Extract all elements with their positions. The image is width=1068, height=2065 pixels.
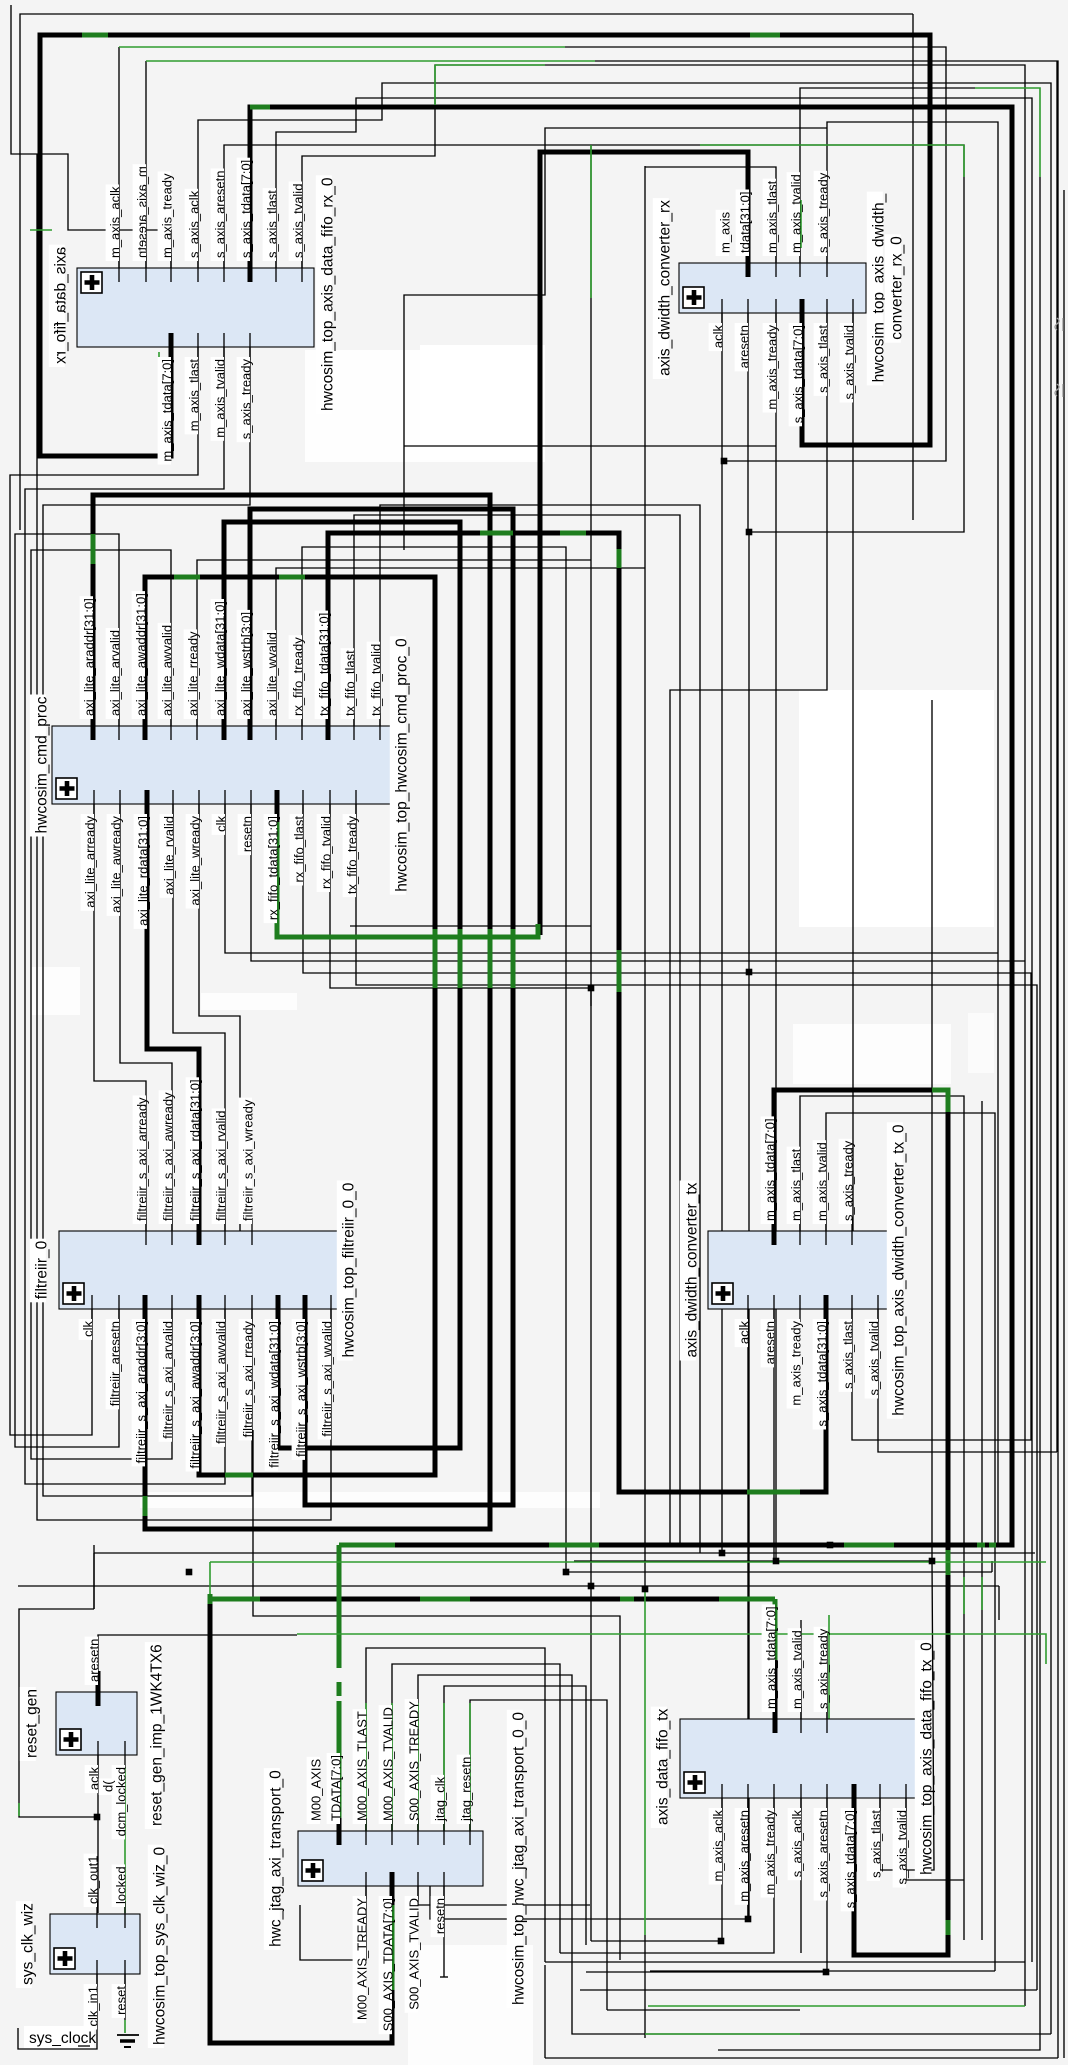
wire highlighted green segment 28 [981, 1577, 983, 1610]
pin hwcosim_cmd_proc.rx_fifo_tlast [290, 790, 307, 886]
svg-text:axi_lite_rvalid: axi_lite_rvalid [162, 816, 177, 895]
svg-text:tx_fifo_tlast: tx_fifo_tlast [343, 650, 358, 716]
wire (thin net segment 41) [721, 313, 723, 1553]
pin axis_data_fifo_rx.s_axis_aclk [185, 189, 202, 282]
wire (thin net segment 32) [225, 804, 998, 953]
svg-text:s_axis_tvalid: s_axis_tvalid [842, 325, 857, 399]
svg-text:TDATA[7:0]: TDATA[7:0] [329, 1755, 344, 1821]
svg-text:M00_AXIS: M00_AXIS [309, 1759, 324, 1821]
pin hwcosim_cmd_proc.axi_lite_rready [184, 629, 201, 740]
svg-text:clk: clk [214, 816, 229, 832]
wire (thin net segment 49) [826, 1113, 995, 1971]
pin hwcosim_cmd_proc.tx_fifo_tdata[31:0] [315, 611, 332, 740]
pin axis_data_fifo_rx.m_axis_tlast [185, 333, 202, 434]
wire (thin net segment 28) [644, 166, 646, 1589]
pin filtreiir_0.filtreiir_s_axi_wstrb[3:0] [292, 1295, 309, 1460]
bus tx_fifo_tdata[31:0] hwcosim_cmd_proc to axis_dwidth_converter_tx s_axis_tdata [328, 533, 826, 1492]
svg-text:axis_dwidth_converter_rx: axis_dwidth_converter_rx [657, 200, 674, 376]
pin hwcosim_cmd_proc.axi_lite_arready [81, 790, 98, 911]
pin axis_data_fifo_rx.m_axis_tvalid [211, 333, 228, 441]
pin hwc_jtag_axi_transport_0.S00_AXIS_TVALID [405, 1872, 422, 2013]
module reset_gen body [56, 1692, 137, 1755]
cell type label hwcosim_top_filtreiir_0_0 [337, 1181, 358, 1361]
wire highlighted green segment 22 [417, 1703, 419, 1831]
wire (thin net segment 11) [302, 65, 1025, 2006]
pin axis_dwidth_converter_rx.m_axis_tlast [763, 179, 780, 277]
pin hwcosim_cmd_proc.rx_fifo_tdata[31:0] [264, 790, 281, 923]
pin sys_clk_wiz.locked [112, 1864, 129, 1928]
wire highlighted green segment 16 [828, 1615, 830, 1719]
wire (thin net segment 74) [19, 1609, 97, 1817]
cell type label hwcosim_top_axis_dwidth_ converter_rx_0 [867, 192, 906, 386]
wire (thin net segment 63) [366, 1648, 545, 1962]
instance name label hwc_jtag_axi_transport_0 [264, 1768, 285, 1950]
pin hwc_jtag_axi_transport_0.jtag_clk [431, 1775, 448, 1845]
svg-text:s_axis_tready: s_axis_tready [816, 172, 831, 253]
svg-text:axi_lite_wdata[31:0]: axi_lite_wdata[31:0] [213, 601, 228, 716]
bus highlighted green segment 5 [277, 822, 538, 937]
wire (thin net segment 59) [566, 1571, 992, 1573]
svg-text:m_axis_aresetn: m_axis_aresetn [135, 166, 150, 258]
svg-text:hwcosim_top_filtreiir_0_0: hwcosim_top_filtreiir_0_0 [340, 1182, 357, 1357]
bus highlighted green segment 16 [480, 531, 513, 536]
svg-text:s_axis_tdata[7:0]: s_axis_tdata[7:0] [239, 160, 254, 258]
wire highlighted green segment 23 [443, 1703, 445, 1831]
bus highlighted green segment 36 [620, 1597, 634, 1602]
svg-text:m_axis_tready: m_axis_tready [160, 173, 175, 258]
wire (thin net segment 71) [440, 1976, 448, 1978]
bus highlighted green segment 18 [747, 1490, 800, 1495]
pin axis_data_fifo_tx.m_axis_aresetn [735, 1784, 752, 1905]
pin hwcosim_cmd_proc.axi_lite_rvalid [160, 790, 177, 898]
pin axis_dwidth_converter_tx.aclk [735, 1295, 752, 1347]
bus highlighted green segment 9 [143, 1496, 148, 1516]
pin hwcosim_cmd_proc.axi_lite_awaddr[31:0] [132, 591, 149, 740]
wire (thin net segment 78) [591, 1798, 722, 1941]
wire highlighted green segment 7 [700, 144, 964, 146]
bus highlighted green segment 19 [932, 1090, 948, 1112]
wire highlighted green segment 24 [469, 1703, 471, 1831]
svg-text:M00_AXIS_TREADY: M00_AXIS_TREADY [355, 1898, 370, 2020]
pin hwcosim_cmd_proc.axi_lite_awready [107, 790, 124, 916]
pin hwcosim_cmd_proc.tx_fifo_tready [343, 790, 360, 897]
wire (thin net segment 52) [773, 1309, 775, 1561]
pin axis_dwidth_converter_tx.m_axis_tdata[7:0] [761, 1116, 778, 1245]
wire (thin net segment 57) [94, 1552, 1035, 1554]
wire (thin net segment 50) [981, 1101, 983, 1940]
bus m_axis_tdata[7:0] axis_data_fifo_rx to axis_dwidth_converter_rx s_axis_tdata [40, 35, 930, 456]
cell type label hwcosim_top_axis_data_fifo_rx_0 [316, 175, 337, 414]
pin hwcosim_cmd_proc.tx_fifo_tlast [341, 648, 358, 740]
svg-text:sys_clock: sys_clock [29, 2030, 96, 2047]
svg-text:hwcosim_top_hwcosim_cmd_proc_0: hwcosim_top_hwcosim_cmd_proc_0 [393, 638, 410, 892]
pin axis_dwidth_converter_tx.s_axis_tlast [839, 1295, 856, 1392]
pin axis_data_fifo_rx.s_axis_tvalid [289, 182, 306, 283]
instance name label axis_dwidth_converter_rx [653, 198, 674, 379]
pin axis_dwidth_converter_tx.m_axis_tlast [787, 1147, 804, 1245]
svg-text:axi_lite_awaddr[31:0]: axi_lite_awaddr[31:0] [134, 593, 149, 716]
wire (thin net segment 95) [1063, 190, 1065, 2058]
wire (thin net segment 24) [197, 560, 591, 726]
instance name label axis_dwidth_converter_tx [680, 1181, 701, 1361]
cell type label hwcosim_top_hwcosim_cmd_proc_0 [390, 636, 411, 894]
wire (thin net segment 29) [302, 547, 566, 1572]
svg-text:m_axis: m_axis [718, 211, 733, 253]
svg-text:filtreiir_s_axi_awready: filtreiir_s_axi_awready [161, 1092, 176, 1221]
wire highlighted green segment 20 [365, 1703, 367, 1831]
svg-text:hwc_jtag_axi_transport_0: hwc_jtag_axi_transport_0 [267, 1770, 284, 1947]
pin axis_data_fifo_tx.s_axis_aclk [788, 1784, 805, 1880]
pin filtreiir_0.filtreiir_aresetn [106, 1295, 123, 1409]
wire (thin net segment 1) [20, 14, 913, 530]
wire (thin net segment 65) [418, 1675, 1051, 2034]
svg-text:hwcosim_top_axis_data_fifo_rx_: hwcosim_top_axis_data_fifo_rx_0 [319, 177, 336, 411]
wire (thin net segment 92) [545, 2057, 1058, 2059]
svg-text:m_axis_tready: m_axis_tready [789, 1321, 804, 1406]
pin filtreiir_0.filtreiir_s_axi_rdata[31:0] [186, 1077, 203, 1245]
pin hwcosim_cmd_proc.axi_lite_wdata[31:0] [211, 599, 228, 740]
svg-text:s_axis_tvalid: s_axis_tvalid [291, 184, 306, 258]
svg-text:filtreiir_s_axi_awaddr[3:0]: filtreiir_s_axi_awaddr[3:0] [188, 1321, 203, 1468]
wire (thin net segment 51) [747, 1309, 749, 1919]
svg-text:m_axis_tlast: m_axis_tlast [765, 180, 780, 253]
svg-text:reset_gen: reset_gen [23, 1689, 40, 1758]
svg-text:filtreiir_s_axi_wready: filtreiir_s_axi_wready [241, 1099, 256, 1221]
module sys_clk_wiz body [50, 1914, 140, 1974]
cell type label hwcosim_top_axis_dwidth_converter_tx_0 [887, 1122, 908, 1418]
bus highlighted green segment 24 [844, 1543, 894, 1548]
pin axis_dwidth_converter_tx.m_axis_tvalid [813, 1140, 830, 1245]
svg-text:axi_lite_wready: axi_lite_wready [188, 815, 203, 905]
wire (thin net segment 69) [418, 1886, 590, 1905]
svg-text:locked: locked [114, 1866, 129, 1904]
wire (thin net segment 72) [98, 1635, 297, 1679]
wire (thin net segment 76) [18, 1974, 97, 2049]
pin axis_dwidth_converter_tx.m_axis_tready [787, 1295, 804, 1409]
wire (thin net segment 83) [880, 1561, 934, 1870]
svg-text:hwcosim_top_axis_data_fifo_tx_: hwcosim_top_axis_data_fifo_tx_0 [918, 1642, 935, 1875]
svg-text:aresetn: aresetn [87, 1639, 102, 1682]
wire (thin net segment 88) [650, 1970, 995, 1972]
wire (thin net segment 17) [670, 313, 827, 1545]
wire highlighted green segment 4 [825, 205, 827, 252]
svg-text:aclk: aclk [737, 1320, 752, 1344]
pin hwc_jtag_axi_transport_0.jtag_resetn [457, 1755, 474, 1845]
junction at 724,461 [721, 458, 728, 465]
pin filtreiir_0.filtreiir_s_axi_wvalid [318, 1295, 335, 1440]
bus highlighted green segment 6 [174, 575, 200, 580]
bus highlighted green segment 3 [250, 105, 270, 110]
pin axis_data_fifo_tx.m_axis_tdata[7:0] [762, 1604, 779, 1733]
pin axis_data_fifo_tx.s_axis_tvalid [893, 1784, 910, 1888]
svg-text:s_axis_tvalid: s_axis_tvalid [867, 1321, 882, 1395]
bus rx_fifo_tdata[31:0] stub at hwcosim_cmd_proc [275, 790, 280, 822]
bus highlighted green segment 27 [337, 1545, 342, 1668]
svg-text:d(: d( [101, 1780, 116, 1792]
junction at 749,972 [746, 969, 753, 976]
bus m_axis_tdata[7:0] axis_dwidth_converter_tx upper corner [774, 1090, 932, 1231]
pin axis_dwidth_converter_rx.m_axis_tready [763, 299, 780, 413]
svg-text:m_axis_tvalid: m_axis_tvalid [815, 1142, 830, 1221]
bus highlighted green segment 1 [82, 33, 108, 38]
svg-text:clk: clk [81, 1321, 96, 1337]
pin hwcosim_cmd_proc.axi_lite_wvalid [263, 630, 280, 740]
svg-text:rx_fifo_tdata[31:0]: rx_fifo_tdata[31:0] [266, 816, 281, 920]
pin axis_data_fifo_rx.m_axis_tdata[7:0] [158, 333, 175, 465]
pin hwcosim_cmd_proc.rx_fifo_tready [289, 635, 306, 740]
bus highlighted green segment 4 [91, 534, 96, 564]
wire highlighted green segment 29 [158, 352, 160, 445]
wire (thin net segment 36) [356, 804, 1037, 1990]
wire (thin net segment 7) [595, 61, 1058, 2058]
pin axis_data_fifo_tx.m_axis_tready [761, 1784, 778, 1898]
wire highlighted green segment 19 [18, 1803, 20, 1816]
wire (thin net segment 87) [545, 1961, 1025, 1963]
wire (thin net segment 61) [18, 1585, 999, 1587]
bus highlighted green segment 20 [946, 1550, 951, 1575]
pin reset_gen.aresetn [85, 1637, 102, 1706]
wire (thin net segment 53) [878, 1309, 1057, 1452]
svg-text:jtag_clk: jtag_clk [433, 1776, 448, 1822]
svg-text:m_axis_tdata[7:0]: m_axis_tdata[7:0] [763, 1118, 778, 1221]
wire highlighted green segment 6 [963, 145, 965, 177]
pin hwcosim_cmd_proc.axi_lite_arvalid [106, 628, 123, 740]
pin hwc_jtag_axi_transport_0.M00_AXIS_TVALID [379, 1705, 396, 1845]
ground [117, 2035, 139, 2047]
bus highlighted green segment 10 [488, 929, 493, 988]
svg-text:tdata[31:0]: tdata[31:0] [738, 192, 753, 253]
svg-text:filtreiir_s_axi_rvalid: filtreiir_s_axi_rvalid [214, 1110, 229, 1221]
wire (thin net segment 5) [565, 47, 946, 461]
pin filtreiir_0.filtreiir_s_axi_rready [239, 1295, 256, 1440]
wire (thin net segment 27) [276, 568, 645, 726]
wire (thin net segment 55) [93, 1553, 95, 1609]
wire (thin net segment 45) [404, 445, 776, 447]
pin axis_dwidth_converter_tx.s_axis_tdata[31:0] [813, 1295, 830, 1430]
svg-text:filtreiir_s_axi_arvalid: filtreiir_s_axi_arvalid [161, 1321, 176, 1439]
bus M00_AXIS_TDATA[7:0] hwc_jtag_axi_transport_0 to axis_data_fifo_rx s_axis_tdata [250, 107, 1012, 1545]
bus aresetn stub at reset_gen [96, 1671, 101, 1702]
wire (thin net segment 64) [392, 1664, 560, 1953]
bus m_axis_tdata[7:0] axis_data_fifo_tx stub [773, 1660, 778, 1719]
wire highlighted green segment 15 [644, 1589, 646, 1935]
wire (thin net segment 38) [120, 804, 172, 1231]
bus highlighted green segment 8 [225, 1473, 253, 1478]
bus axi_lite_rdata[31:0] filtreiir_0 to hwcosim_cmd_proc [147, 804, 199, 1231]
svg-text:axi_lite_rdata[31:0]: axi_lite_rdata[31:0] [136, 816, 151, 926]
wire (thin net segment 70) [443, 1886, 445, 1977]
wire (thin net segment 9) [224, 145, 964, 532]
wire (thin net segment 66) [444, 1686, 586, 1945]
pin axis_data_fifo_tx.m_axis_tvalid [788, 1628, 805, 1733]
wire highlighted green segment 17 [124, 1767, 126, 1913]
wire (thin net segment 43) [748, 532, 750, 1919]
svg-text:s_axis_tlast: s_axis_tlast [869, 1810, 884, 1878]
module axis_dwidth_converter_tx body [708, 1231, 893, 1309]
wire highlighted green segment 18 [124, 2020, 126, 2033]
svg-text:s_axis_aclk: s_axis_aclk [790, 1810, 805, 1878]
bus axi_lite_wstrb[3:0] hwcosim_cmd_proc to filtreiir_0 [250, 509, 513, 1505]
wire (thin net segment 16) [827, 122, 998, 1545]
junction at 721,1941 [718, 1938, 725, 1945]
wire (thin net segment 58) [574, 1560, 932, 1562]
wire (thin net segment 73) [97, 1755, 99, 1913]
svg-text:S00_AXIS_TDATA[7:0]: S00_AXIS_TDATA[7:0] [381, 1898, 396, 2031]
wire (thin net segment 14) [800, 88, 975, 263]
wire (thin net segment 40) [199, 804, 240, 1231]
pin filtreiir_0.filtreiir_s_axi_awaddr[3:0] [186, 1295, 203, 1472]
svg-text:jtag_resetn: jtag_resetn [459, 1757, 474, 1822]
bus highlighted green segment 23 [549, 1543, 599, 1548]
module filtreiir_0 body [59, 1231, 342, 1309]
wire (thin net segment 4) [118, 47, 120, 268]
svg-text:dcm_locked: dcm_locked [114, 1767, 129, 1836]
svg-text:m_axis_aclk: m_axis_aclk [108, 186, 123, 258]
junction at 566,1572 [563, 1569, 570, 1576]
svg-text:tx_fifo_tready: tx_fifo_tready [345, 816, 360, 895]
svg-text:m_axis_tready: m_axis_tready [765, 325, 780, 410]
artifact mark right edge 1 [1055, 318, 1063, 331]
svg-text:converter_rx_0: converter_rx_0 [888, 236, 905, 340]
wire highlighted green segment 27 [963, 1577, 965, 1614]
svg-text:hwcosim_cmd_proc: hwcosim_cmd_proc [33, 696, 50, 833]
wire (thin net segment 89) [580, 1989, 1037, 1991]
pin axis_data_fifo_tx.s_axis_aresetn [814, 1784, 831, 1901]
pin axis_dwidth_converter_rx.s_axis_tlast [814, 299, 831, 396]
pin axis_data_fifo_tx.s_axis_tlast [867, 1784, 884, 1881]
pin hwc_jtag_axi_transport_0.S00_AXIS_TREADY [405, 1699, 422, 1845]
wire (thin net segment 62) [998, 1586, 1000, 1620]
svg-text:S00_AXIS_TVALID: S00_AXIS_TVALID [407, 1898, 422, 2010]
bus highlighted green segment 17 [617, 549, 622, 568]
instance name label axis_data_fifo_tx [651, 1707, 672, 1828]
wire highlighted green segment 10 [434, 65, 436, 105]
bus highlighted green segment 33 [773, 1599, 778, 1660]
svg-text:axi_lite_arready: axi_lite_arready [83, 816, 98, 908]
pin reset_gen.aclk [85, 1741, 102, 1793]
wire (thin net segment 67) [470, 1700, 607, 2010]
junction at 932,1561 [929, 1558, 936, 1565]
instance name label filtreiir_0 [30, 1239, 51, 1303]
pin reset_gen.dcm_locked [112, 1741, 129, 1839]
bus trunk segment y1599 [260, 1597, 719, 1602]
artifact mark right edge 2 [1055, 384, 1063, 397]
junction at 591,1586 [588, 1583, 595, 1590]
bus highlighted green segment 30 [208, 1594, 213, 1604]
bus highlighted green segment 34 [390, 1905, 395, 1990]
svg-text:M00_AXIS_TVALID: M00_AXIS_TVALID [381, 1707, 396, 1821]
svg-text:filtreiir_s_axi_rdata[31:0]: filtreiir_s_axi_rdata[31:0] [188, 1079, 203, 1221]
svg-text:resetn: resetn [240, 816, 255, 852]
svg-text:aclk: aclk [711, 324, 726, 348]
pin hwcosim_cmd_proc.rx_fifo_tvalid [317, 790, 334, 892]
bus highlighted green segment 7 [279, 575, 305, 580]
bus highlighted green segment 35 [420, 1597, 470, 1602]
wire highlighted green segment 25 [648, 2005, 1025, 2007]
svg-text:filtreiir_s_axi_rready: filtreiir_s_axi_rready [241, 1321, 256, 1438]
pin hwc_jtag_axi_transport_0.resetn [431, 1872, 448, 1937]
svg-text:hwcosim_top_hwc_jtag_axi_trans: hwcosim_top_hwc_jtag_axi_transport_0_0 [510, 1712, 527, 2005]
svg-text:reset_gen_imp_1WK4TX6: reset_gen_imp_1WK4TX6 [148, 1644, 165, 1826]
svg-text:filtreiir_s_axi_araddr[3:0]: filtreiir_s_axi_araddr[3:0] [134, 1321, 149, 1463]
svg-text:s_axis_tready: s_axis_tready [239, 358, 254, 439]
svg-text:S00_AXIS_TREADY: S00_AXIS_TREADY [407, 1701, 422, 1821]
pin axis_dwidth_converter_tx.s_axis_tvalid [865, 1295, 882, 1399]
wire (thin net segment 94) [644, 1935, 646, 2038]
bus axi_lite_wdata[31:0] hwcosim_cmd_proc to filtreiir_0 [224, 522, 460, 1448]
instance name label reset_gen [20, 1687, 41, 1761]
junction at 722,1553 [719, 1550, 726, 1557]
wire (thin net segment 18) [10, 347, 198, 1435]
pin sys_clk_wiz.clk_out1 [84, 1854, 101, 1928]
svg-text:axi_lite_arvalid: axi_lite_arvalid [108, 630, 123, 716]
wire (thin net segment 81) [800, 1798, 802, 1953]
wire highlighted green segment 5 [975, 88, 1040, 177]
wire (thin net segment 2) [11, 5, 171, 268]
bus highlighted green segment 13 [511, 929, 516, 988]
wire (thin net segment 35) [330, 804, 591, 1006]
svg-text:filtreiir_s_axi_arready: filtreiir_s_axi_arready [135, 1097, 150, 1221]
bus highlighted green segment 11 [458, 929, 463, 988]
svg-text:m_axis_tvalid: m_axis_tvalid [213, 359, 228, 438]
wire (thin net segment 37) [94, 804, 146, 1231]
svg-text:m_axis_tdata[7:0]: m_axis_tdata[7:0] [160, 359, 175, 462]
wire (thin net segment 68) [300, 1886, 366, 1960]
bus highlighted green segment 32 [719, 1597, 775, 1602]
svg-text:M00_AXIS_TLAST: M00_AXIS_TLAST [355, 1711, 370, 1821]
pin hwc_jtag_axi_transport_0.S00_AXIS_TDATA[7:0] [379, 1872, 396, 2034]
bus axi_lite_awaddr[31:0] hwcosim_cmd_proc to filtreiir_0 [145, 577, 435, 1475]
svg-text:axi_lite_rready: axi_lite_rready [186, 631, 201, 716]
junction at 776,1561 [773, 1558, 780, 1565]
wire highlighted green segment 14 [209, 1562, 211, 1594]
bus highlighted green segment 21 [946, 1920, 951, 1935]
svg-text:aresetn: aresetn [737, 325, 752, 368]
pin hwcosim_cmd_proc.axi_lite_wstrb[3:0] [237, 610, 254, 740]
wire (thin net segment 90) [718, 1962, 1040, 2050]
pin axis_data_fifo_tx.m_axis_aclk [709, 1784, 726, 1885]
svg-text:sys_clk_wiz: sys_clk_wiz [20, 1903, 37, 1985]
pin filtreiir_0.filtreiir_s_axi_arvalid [159, 1295, 176, 1442]
bus highlighted green segment 14 [617, 950, 622, 992]
junction at 830,1545 [827, 1542, 834, 1549]
cell type label reset_gen_imp_1WK4TX6 [145, 1642, 166, 1829]
wire (thin net segment 6) [145, 61, 147, 268]
instance name label sys_clk_wiz [16, 1901, 37, 1988]
svg-text:m_axis_aclk: m_axis_aclk [711, 1809, 726, 1881]
svg-text:filtreiir_0: filtreiir_0 [33, 1240, 50, 1299]
wire (thin net segment 23) [31, 550, 172, 1459]
svg-text:axi_lite_awready: axi_lite_awready [109, 816, 124, 913]
instance name label hwcosim_cmd_proc [30, 695, 51, 837]
svg-text:m_axis_tdata[7:0]: m_axis_tdata[7:0] [764, 1606, 779, 1709]
svg-text:axi_lite_araddr[31:0]: axi_lite_araddr[31:0] [82, 598, 97, 716]
cell type label hwcosim_top_sys_clk_wiz_0 [148, 1845, 169, 2048]
svg-text:hwcosim_top_axis_dwidth_conver: hwcosim_top_axis_dwidth_converter_tx_0 [890, 1124, 907, 1416]
pin filtreiir_0.filtreiir_s_axi_rvalid [212, 1108, 229, 1245]
pin hwcosim_cmd_proc.tx_fifo_tvalid [367, 642, 384, 740]
pin axis_dwidth_converter_rx.s_axis_tready [814, 171, 831, 277]
wire highlighted green segment 2 [146, 60, 595, 62]
wire (thin net segment 25) [590, 145, 592, 1941]
wire (thin net segment 30) [354, 515, 680, 1545]
pin filtreiir_0.filtreiir_s_axi_awready [159, 1090, 176, 1245]
wire (thin net segment 13) [645, 167, 776, 263]
pin axis_data_fifo_rx.s_axis_tready [237, 333, 254, 442]
bus highlighted green segment 28 [337, 1682, 342, 1696]
wire (thin net segment 8) [198, 83, 1051, 2034]
module axis_data_fifo_rx body [77, 268, 314, 347]
